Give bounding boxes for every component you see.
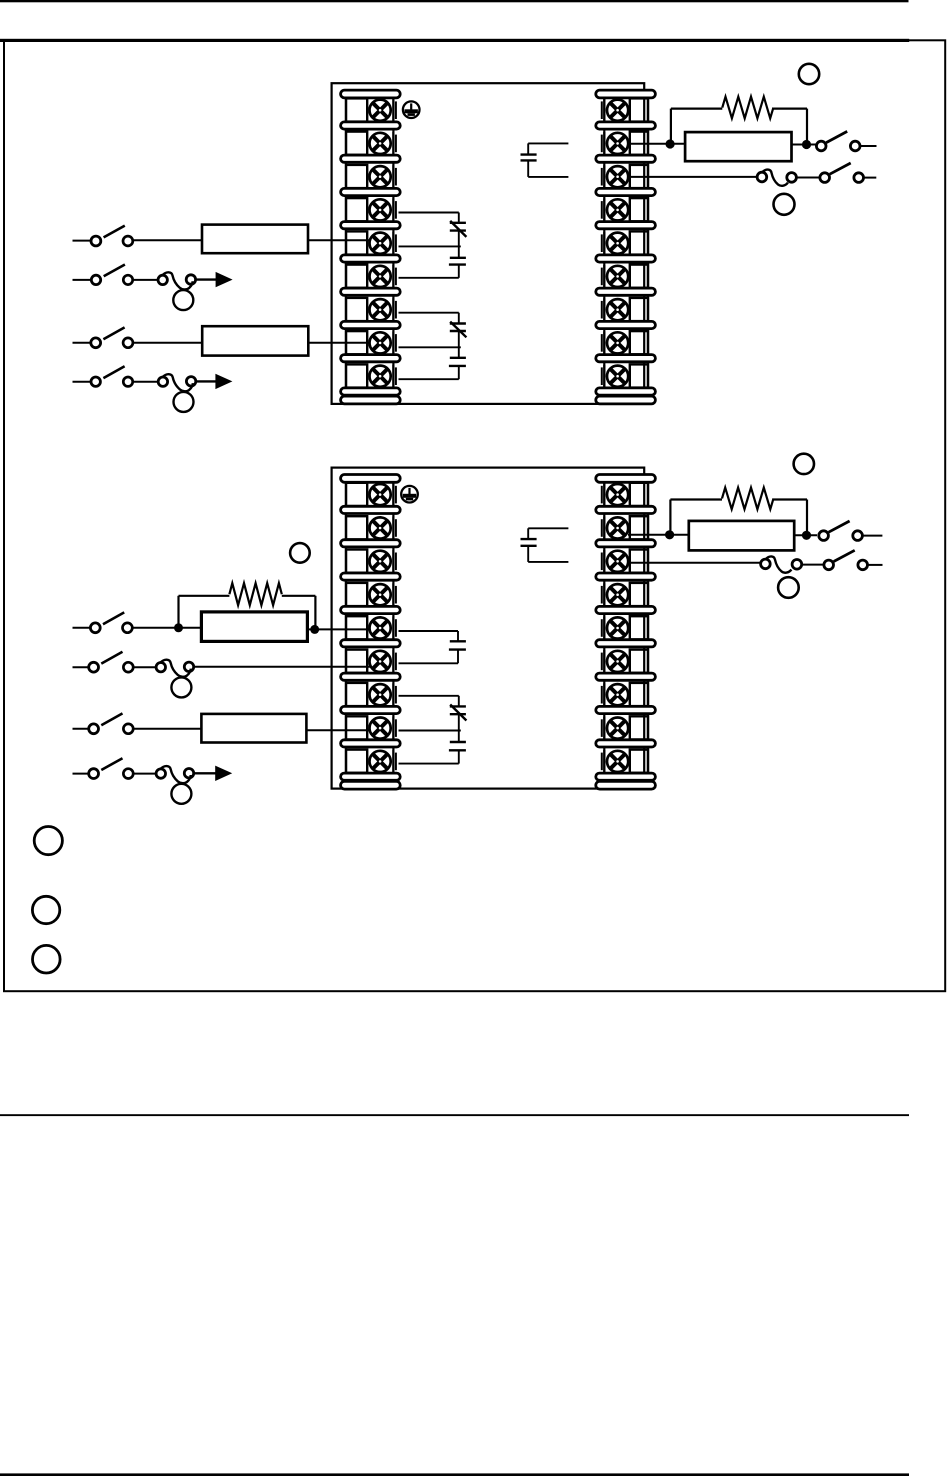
controller 1 left terminal strip screw terminal 1: [346, 98, 396, 121]
note circle a: [799, 64, 819, 84]
controller 2 left terminal strip screw terminal 3: [346, 550, 396, 573]
controller 2 left terminal strip screw terminal 6: [346, 650, 396, 673]
switch S3 (input row 1): [73, 226, 133, 246]
wire switch to coil row 2: [133, 279, 158, 281]
controller 2 left terminal strip screw terminal 5: [346, 616, 396, 639]
controller 1 left terminal strip screw terminal 8: [346, 331, 396, 354]
device box B4: [201, 714, 306, 743]
resistor R1 (parallel): [671, 97, 807, 145]
RTD element B (terminals 7-8): [450, 322, 467, 338]
operation coil K2: [158, 374, 196, 412]
switch S4 (row 2): [73, 265, 133, 285]
switch S10 (row 2 unit 2): [73, 652, 134, 672]
load box (heater) H1: [685, 132, 791, 161]
resistor R2 (parallel): [670, 488, 807, 536]
note circle b: [774, 194, 795, 215]
controller 2 left terminal strip body side rails: [346, 479, 393, 786]
arrow to load row 2: [216, 272, 233, 287]
note circle e: [290, 543, 310, 563]
wire coil to arrow row 4: [196, 380, 216, 382]
controller 2 right terminal strip body side rails: [604, 479, 648, 786]
controller 2 left terminal strip screw terminal 2: [346, 516, 396, 539]
wire switch to coil (row 4 unit 2): [133, 773, 156, 775]
controller 1 left terminal strip screw terminal 6: [346, 265, 396, 288]
controller 2 left terminal strip screw terminal 7: [346, 683, 396, 706]
note circle 2: [32, 896, 59, 923]
current protector F2: [761, 556, 802, 572]
wire terminal 3 to protector: [630, 176, 757, 178]
arrow to load (row 4 unit 2): [215, 766, 232, 781]
controller 2 left terminal strip separator bars: [341, 475, 401, 790]
wire box B1 to terminal 5: [308, 239, 371, 241]
controller 1 right terminal strip screw terminal 5: [602, 231, 648, 254]
switch S5 (row 3): [73, 327, 133, 347]
wire terminal 8 to sensor (unit 2): [399, 714, 461, 742]
note circle d: [778, 577, 799, 598]
wire terminal 9 to sensor: [399, 366, 459, 379]
controller 1 right terminal strip body side rails: [604, 94, 648, 400]
junction node C1: [665, 530, 674, 539]
wire box to junction C2: [794, 534, 817, 536]
wire terminal 2 to junction (unit 2): [628, 534, 689, 536]
wire terminal 4 to sensor: [399, 213, 459, 223]
controller 1 right terminal strip screw terminal 1: [602, 98, 648, 121]
wire terminal 8 to sensor: [399, 331, 461, 358]
switch S12 (row 4 unit 2): [73, 758, 134, 778]
controller 2 left terminal strip screw terminal 1: [346, 483, 396, 506]
controller 1 left terminal strip body side rails: [346, 94, 393, 400]
controller 1 left terminal strip screw terminal 3: [346, 165, 396, 188]
junction node D1: [174, 623, 183, 632]
thermocouple element (terminals 8-9, unit 2): [449, 742, 466, 750]
note circle 1: [34, 827, 62, 855]
device box B3: [201, 612, 307, 642]
controller 1 right terminal strip screw terminal 7: [602, 298, 648, 321]
wire switch to box row 1: [133, 239, 202, 241]
switch S2 (alarm output): [820, 163, 876, 182]
controller 1 right terminal strip screw terminal 8: [602, 331, 648, 354]
wire box B3 to terminal 5 (unit 2): [307, 628, 370, 630]
resistor R3 (parallel with B3): [179, 583, 316, 629]
operation coil K1: [158, 272, 196, 310]
controller 2 left terminal strip screw terminal 4: [346, 583, 396, 606]
controller 1 internal filter capacitor: [521, 143, 569, 177]
controller 2 internal filter capacitor: [521, 528, 569, 562]
controller 1 left terminal strip screw terminal 2: [346, 132, 396, 155]
wire terminal 5 to sensor: [399, 231, 461, 258]
switch S7 (control output unit 2): [819, 521, 883, 540]
wire box B2 to terminal 8: [308, 342, 370, 344]
junction node A1: [666, 139, 675, 148]
controller 2 right terminal strip screw terminal 3: [602, 550, 648, 573]
controller 1 right terminal strip screw terminal 3: [602, 165, 648, 188]
note circle c: [794, 454, 814, 474]
switch S1 (control output): [816, 131, 876, 150]
controller 1 right terminal strip screw terminal 2: [602, 132, 648, 155]
controller 2 right terminal strip screw terminal 7: [602, 683, 648, 706]
controller unit 1 outline: [332, 83, 645, 404]
wire terminal 3 to protector (unit 2): [630, 562, 761, 564]
wire switch to box row 3: [133, 342, 202, 344]
wire terminal 6 to sensor: [399, 265, 459, 278]
controller 1 right terminal strip screw terminal 9: [602, 364, 648, 387]
controller 2 right terminal strip screw terminal 2: [602, 516, 648, 539]
controller 1 right terminal strip separator bars: [596, 90, 656, 404]
controller 2 right terminal strip screw terminal 5: [602, 616, 648, 639]
wire coil to arrow row 2: [196, 278, 216, 280]
current protector F1: [757, 170, 796, 186]
controller 2 left terminal strip screw terminal 8: [346, 716, 396, 739]
controller 1 left terminal strip screw terminal 9: [346, 364, 396, 387]
operation coil K4: [156, 766, 194, 804]
thermocouple element (terminals 5-6, unit 2): [449, 641, 466, 649]
controller 2 right terminal strip screw terminal 9: [602, 750, 648, 773]
device box B2: [202, 326, 308, 355]
switch S9 (row 1 unit 2): [73, 612, 133, 632]
wire coil to arrow (row 4 unit 2): [194, 772, 216, 774]
controller 1 right terminal strip screw terminal 4: [602, 198, 648, 221]
thermocouple element B (terminals 8-9): [449, 358, 466, 366]
wire protector to switch S8: [802, 564, 824, 566]
junction node C2: [802, 531, 811, 540]
wire switch to coil row 4: [133, 381, 158, 383]
thermocouple element A (terminals 5-6): [449, 258, 466, 265]
wire switch to junction row 1: [132, 627, 201, 629]
controller 1 left terminal strip screw terminal 7: [346, 298, 396, 321]
wire box to junction A2: [792, 144, 818, 146]
wire coil K3 to terminal 6 (unit 2): [194, 666, 371, 668]
note circle 3: [33, 945, 61, 973]
wire terminal 7 to sensor: [399, 313, 459, 324]
junction node A2: [802, 140, 811, 149]
wire switch to box (row 3 unit 2): [133, 728, 201, 730]
wire box B4 to terminal 8 (unit 2): [306, 729, 370, 731]
device box B1: [202, 225, 308, 254]
controller 2 right terminal strip screw terminal 8: [602, 716, 648, 739]
wire terminal 9 to sensor (unit 2): [399, 750, 459, 763]
wire terminal 2 to junction: [628, 143, 686, 145]
controller 1 left terminal strip screw terminal 4: [346, 198, 396, 221]
wire terminal 7 to sensor (unit 2): [399, 696, 459, 707]
wire protector to switch S2: [796, 177, 820, 179]
controller 1 left terminal strip separator bars: [341, 90, 401, 404]
wire switch to coil (row 2 unit 2): [133, 666, 156, 668]
junction node D2: [310, 625, 319, 634]
RTD element A (terminals 4-5): [450, 221, 467, 237]
controller 2 right terminal strip separator bars: [596, 475, 656, 790]
controller 2 protective earth screw: [401, 486, 418, 503]
operation coil K3: [156, 660, 194, 698]
load box (heater) H2: [689, 521, 794, 551]
controller unit 2 outline: [332, 468, 645, 789]
controller 1 left terminal strip screw terminal 5: [346, 231, 396, 254]
wire terminal 6 to sensor (unit 2): [399, 650, 459, 664]
arrow to load row 4: [215, 374, 232, 389]
controller 1 protective earth screw: [403, 101, 420, 118]
controller 1 right terminal strip screw terminal 6: [602, 265, 648, 288]
controller 2 left terminal strip screw terminal 9: [346, 750, 396, 773]
RTD element (terminals 7-8, unit 2): [450, 705, 467, 721]
controller 2 right terminal strip screw terminal 4: [602, 583, 648, 606]
switch S6 (row 4): [73, 366, 133, 386]
controller 2 right terminal strip screw terminal 1: [602, 483, 648, 506]
wire terminal 5 to sensor (unit 2): [399, 631, 459, 641]
switch S11 (row 3 unit 2): [73, 713, 134, 733]
controller 2 right terminal strip screw terminal 6: [602, 650, 648, 673]
switch S8 (alarm output unit 2): [824, 550, 883, 569]
